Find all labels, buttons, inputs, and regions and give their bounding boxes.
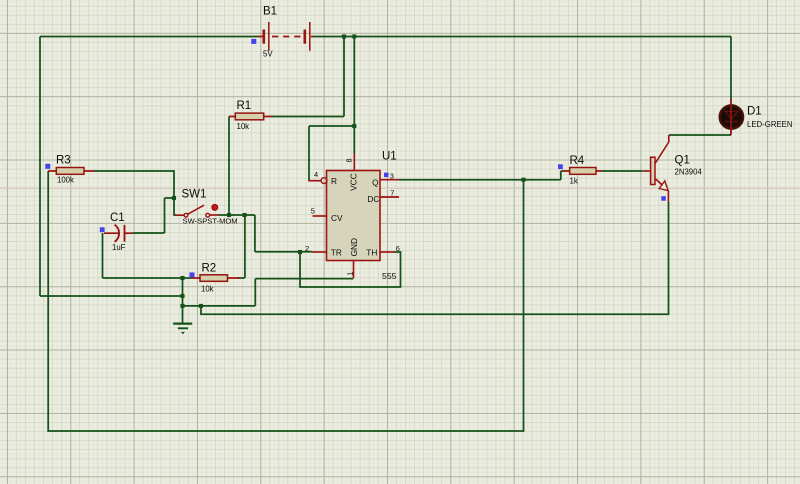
- svg-text:555: 555: [382, 271, 397, 281]
- wire R1 right to VCC rail: [273, 37, 345, 117]
- svg-text:10k: 10k: [237, 122, 250, 131]
- svg-text:R2: R2: [202, 263, 217, 275]
- wire R2 right to 555 pin1: [237, 277, 245, 279]
- wire reset branch pin4: [309, 126, 354, 180]
- junction R3 / C1 / switch node: [172, 196, 176, 200]
- wire emitter return: [201, 202, 669, 314]
- resistor R4: [563, 155, 602, 186]
- svg-text:6: 6: [396, 244, 400, 253]
- capacitor C1: [104, 212, 133, 252]
- wire R1 left vertical: [228, 117, 230, 216]
- svg-text:TR: TR: [331, 248, 342, 258]
- LED D1: [720, 99, 793, 136]
- svg-text:7: 7: [390, 189, 394, 198]
- battery B1: [258, 22, 314, 51]
- wire R3 left big loop: down, bottom, up to Q: [48, 171, 523, 431]
- svg-text:1uF: 1uF: [112, 243, 126, 252]
- svg-text:3: 3: [390, 172, 394, 181]
- junction VCC rail / R1 branch: [342, 34, 346, 38]
- svg-text:Q1: Q1: [675, 155, 690, 167]
- wire top rail left: [40, 36, 258, 38]
- junction VCC rail / pin8 branch: [352, 34, 356, 38]
- wire 555 pin1 to ground drop: [255, 279, 353, 306]
- faint artifact line: [0, 188, 800, 190]
- junction switch line / R2 drop: [242, 213, 246, 217]
- junction R2 left / C1 / ground: [180, 276, 184, 280]
- svg-text:4: 4: [314, 170, 318, 179]
- svg-text:SW1: SW1: [182, 188, 207, 200]
- svg-text:R1: R1: [237, 100, 252, 112]
- U1 pin 2 TR: [312, 251, 327, 253]
- ground: [173, 324, 192, 329]
- svg-text:VCC: VCC: [348, 173, 358, 191]
- U1 pin 7 DC: [380, 196, 399, 198]
- wire TR line: [255, 251, 312, 253]
- wire switch right line: [219, 214, 255, 216]
- wire ground line right: [183, 305, 256, 307]
- resistor R1: [229, 100, 273, 131]
- node marker at R4: [558, 164, 563, 169]
- U1 pin 8 VCC: [353, 154, 355, 171]
- wire C1 left drop: [102, 233, 104, 278]
- svg-text:DC: DC: [367, 194, 379, 204]
- svg-text:2N3904: 2N3904: [675, 168, 703, 177]
- resistor R2: [191, 263, 240, 294]
- wire top rail right: [314, 36, 732, 38]
- svg-text:C1: C1: [110, 212, 125, 224]
- wire switch to R2 vertical: [244, 215, 246, 278]
- node marker at C1: [100, 227, 105, 232]
- svg-text:TH: TH: [366, 248, 377, 258]
- junction pin8 / reset branch: [352, 124, 356, 128]
- U1 pin 6 TH: [380, 251, 395, 253]
- wire C1 branch to junction A: [133, 198, 175, 233]
- svg-text:100k: 100k: [57, 175, 74, 184]
- junction Q output / feedback loop: [521, 178, 525, 182]
- op-amp U1 555 timer body: [305, 151, 400, 282]
- svg-text:CV: CV: [331, 213, 343, 223]
- node marker at Q1 emitter: [661, 196, 666, 201]
- node marker at pin 3: [384, 173, 389, 178]
- svg-text:U1: U1: [382, 151, 397, 163]
- U1 pin 4 R: [308, 180, 321, 182]
- wire R2 left line: [103, 277, 192, 279]
- U1 pin 3 Q: [380, 179, 399, 181]
- wire ground vertical: [182, 278, 184, 323]
- junction ground line / emitter return: [199, 304, 203, 308]
- wire left outer vertical (battery minus loop): [39, 37, 41, 297]
- transistor Q1: [643, 135, 703, 202]
- junction ground / battery return: [180, 294, 184, 298]
- node marker at R3: [45, 164, 50, 169]
- junction switch line / R1: [227, 213, 231, 217]
- wire VCC drop to pin8: [353, 37, 355, 154]
- svg-text:Q: Q: [372, 177, 379, 187]
- svg-text:R: R: [331, 176, 337, 186]
- svg-text:5: 5: [311, 207, 315, 216]
- svg-text:GND: GND: [349, 238, 359, 256]
- svg-text:SW-SPST-MOM: SW-SPST-MOM: [183, 216, 238, 225]
- U1 pin 5 CV: [313, 215, 327, 217]
- junction ground / TR return line: [180, 304, 184, 308]
- wire TR-TH loop: [300, 252, 401, 287]
- wire LED top: [730, 37, 732, 99]
- svg-text:8: 8: [345, 158, 354, 162]
- svg-text:1: 1: [346, 272, 355, 276]
- wire Q output line: [399, 171, 563, 180]
- svg-text:R3: R3: [56, 155, 71, 167]
- node marker at R2: [190, 272, 195, 277]
- junction TR / TH loop: [298, 250, 302, 254]
- svg-text:R4: R4: [570, 155, 585, 167]
- wire y=296 to ground: [40, 295, 183, 297]
- wire R4 to base: [602, 170, 643, 172]
- wire collector to LED: [669, 134, 731, 136]
- resistor R3: [48, 155, 94, 185]
- svg-text:10k: 10k: [201, 285, 214, 294]
- svg-text:D1: D1: [747, 106, 762, 118]
- svg-text:5V: 5V: [263, 50, 273, 59]
- svg-text:LED-GREEN: LED-GREEN: [747, 120, 793, 129]
- wire switch to TR/ground vertical: [254, 215, 256, 252]
- wire R3 right to switch: [94, 171, 176, 215]
- svg-text:2: 2: [305, 244, 309, 253]
- node marker at B1: [251, 39, 256, 44]
- switch SW1: [175, 188, 238, 225]
- svg-text:1k: 1k: [570, 177, 578, 186]
- svg-text:B1: B1: [263, 6, 277, 18]
- U1 pin 1 GND: [353, 261, 355, 279]
